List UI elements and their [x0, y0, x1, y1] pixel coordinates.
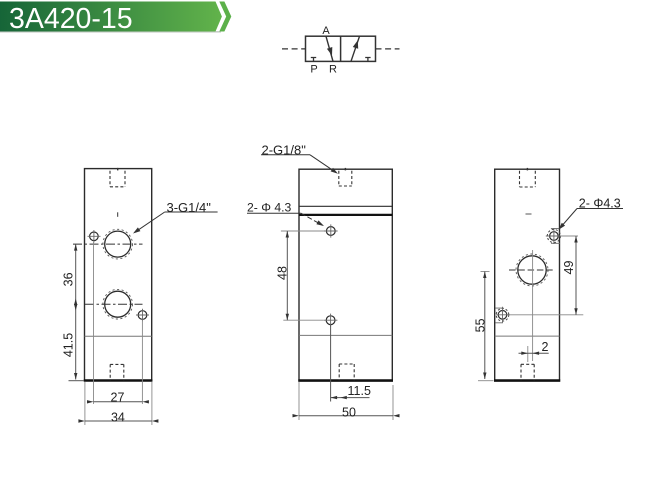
left view port circle 1 (G1/4) — [105, 231, 131, 257]
dim 55 top extension tick — [481, 271, 490, 273]
valve symbol: blocked port T left — [311, 58, 316, 62]
middle view interior gray line — [299, 334, 392, 336]
right view horizontal centerline — [509, 269, 555, 271]
dim 27 line — [94, 401, 143, 403]
right view hole 2 lower left — [498, 311, 507, 320]
right view thick bottom edge — [494, 379, 560, 382]
banner shadow — [0, 31, 221, 33]
right view vertical centerline — [532, 250, 534, 361]
label 2-phi4.3 leader arrowhead — [316, 220, 324, 226]
middle view hole 2 — [326, 316, 335, 325]
dim 55 line — [484, 272, 486, 380]
dim 36/41.5 vertical line — [75, 244, 77, 379]
middle view thin line — [299, 205, 392, 207]
svg-text:48: 48 — [276, 266, 290, 280]
dim 49 arrows — [574, 236, 577, 243]
left view thick bottom edge — [84, 379, 153, 382]
valve symbol: left flow arrowhead — [327, 47, 332, 56]
valve symbol: center divider — [340, 36, 342, 61]
right view hole 1 center ticks — [546, 228, 560, 244]
left view centerline circle 1 — [73, 243, 143, 245]
label 2-phi4.3 right underline — [577, 208, 623, 210]
dim 49 line — [575, 236, 577, 315]
left view thread circle 2 dashed — [103, 289, 133, 319]
right view body outline — [495, 169, 560, 381]
left view vertical center dash — [117, 212, 119, 217]
left view top port hidden lines — [110, 171, 125, 187]
left view top edge center mark — [117, 168, 119, 171]
dim 2 line — [519, 352, 549, 354]
banner chevron — [219, 2, 231, 32]
dim 36 arrow top — [74, 244, 77, 251]
middle view bottom port hidden lines — [339, 364, 354, 380]
svg-text:A: A — [322, 25, 330, 37]
left view body outline — [85, 169, 152, 381]
label 2-G1/8" leader — [310, 155, 336, 173]
label 2-phi4.3 right leader — [560, 209, 577, 229]
svg-text:P: P — [310, 63, 317, 75]
dim 48 line — [286, 231, 288, 320]
dim 11.5 arrows — [331, 396, 338, 399]
label 3-G1/4" leader — [135, 212, 165, 232]
right view bottom port hidden lines — [521, 364, 534, 380]
svg-text:2- Φ 4.3: 2- Φ 4.3 — [247, 200, 291, 214]
svg-text:41.5: 41.5 — [61, 333, 75, 357]
dim 27 arrows — [87, 400, 94, 403]
banner body — [0, 2, 222, 32]
left view bottom port hidden lines — [110, 364, 124, 380]
dim 36 arrow bottom — [74, 299, 77, 306]
label 2-G1/8" leader arrowhead — [331, 168, 338, 174]
valve symbol: left flow path A to R — [326, 36, 333, 61]
dim 11.5 line — [331, 397, 370, 399]
middle view hole 1 extension line — [281, 230, 324, 232]
svg-text:R: R — [329, 63, 337, 75]
dim 11.5 extension vertical — [330, 325, 332, 402]
svg-text:27: 27 — [111, 390, 125, 404]
svg-text:3A420-15: 3A420-15 — [9, 3, 133, 35]
dim 50 arrows — [293, 414, 300, 417]
dim 34 arrows — [78, 419, 85, 422]
right view side port thread circle dashed — [516, 254, 548, 286]
right view interior gray line — [495, 335, 560, 337]
valve symbol: right flow arrowhead — [353, 40, 358, 49]
left view mounting hole A — [90, 232, 99, 241]
valve symbol: blocked port T right — [365, 58, 370, 62]
right view top port hidden lines — [520, 171, 536, 187]
dim 34 extension lines — [84, 382, 86, 425]
left view hole B center ticks — [136, 309, 149, 322]
label 2-G1/8" underline — [261, 154, 310, 156]
dim 41.5 bottom extension — [69, 380, 85, 382]
dim 2 arrows — [521, 352, 528, 355]
left view hole A center ticks — [88, 230, 101, 243]
svg-text:11.5: 11.5 — [348, 384, 371, 398]
middle view hole 2 extension line — [283, 319, 324, 321]
dim 55 bottom extension tick — [478, 380, 494, 382]
valve symbol: right pilot dashed line — [376, 48, 400, 50]
svg-text:55: 55 — [474, 318, 488, 332]
right view small center dash — [526, 213, 532, 215]
middle view thick line — [299, 214, 392, 216]
left view interior gray line — [85, 335, 152, 337]
right view hole 2 extension line — [510, 314, 584, 316]
valve symbol: right flow path — [351, 36, 360, 61]
svg-text:50: 50 — [342, 405, 356, 419]
dim 50 extension lines — [298, 382, 300, 420]
left view thread circle 1 dashed — [103, 229, 133, 259]
left view centerline circle 2 — [85, 303, 143, 305]
middle view hole 1 center ticks — [324, 224, 338, 237]
dim 41.5 arrow top — [74, 304, 77, 311]
right view hole 1 extension line — [560, 235, 578, 237]
middle view top edge center mark — [344, 168, 346, 171]
right view hole 2 center ticks — [496, 307, 510, 323]
middle view body outline — [299, 169, 392, 381]
right view side port circle — [518, 256, 546, 284]
middle view top port hidden lines — [339, 171, 352, 186]
dim 55 arrows — [483, 272, 486, 279]
dim 41.5 arrow bottom — [74, 373, 77, 380]
label 2-phi4.3 dashed leader — [301, 213, 323, 225]
dim 34 line — [85, 420, 152, 422]
middle view thick bottom edge — [298, 379, 393, 382]
left view mounting hole B — [138, 311, 147, 320]
svg-text:49: 49 — [562, 261, 576, 275]
svg-text:2: 2 — [542, 340, 549, 354]
label 2-phi4.3 underline — [247, 212, 301, 214]
dim 2 port center extension — [527, 346, 529, 362]
svg-text:34: 34 — [111, 410, 125, 424]
valve symbol: left pilot dashed line — [282, 48, 306, 50]
dim 27 extension right — [141, 320, 143, 404]
label 3-G1/4" underline — [165, 211, 218, 213]
valve symbol: body boxes — [306, 36, 376, 61]
left view port circle 2 (G1/4) — [105, 291, 131, 317]
dim 48 arrows — [286, 231, 289, 238]
dim 27 extension left — [93, 242, 95, 404]
middle view hole 1 — [326, 227, 335, 236]
dim 50 line — [299, 415, 393, 417]
label 3-G1/4" leader arrowhead — [133, 227, 140, 233]
svg-text:36: 36 — [62, 272, 76, 286]
middle view hole 2 center ticks — [324, 314, 338, 327]
right view top edge center mark — [526, 168, 528, 171]
svg-text:3-G1/4": 3-G1/4" — [167, 200, 212, 215]
label 2-phi4.3 right leader arrowhead — [559, 223, 566, 230]
right view hole 1 top — [550, 232, 559, 241]
